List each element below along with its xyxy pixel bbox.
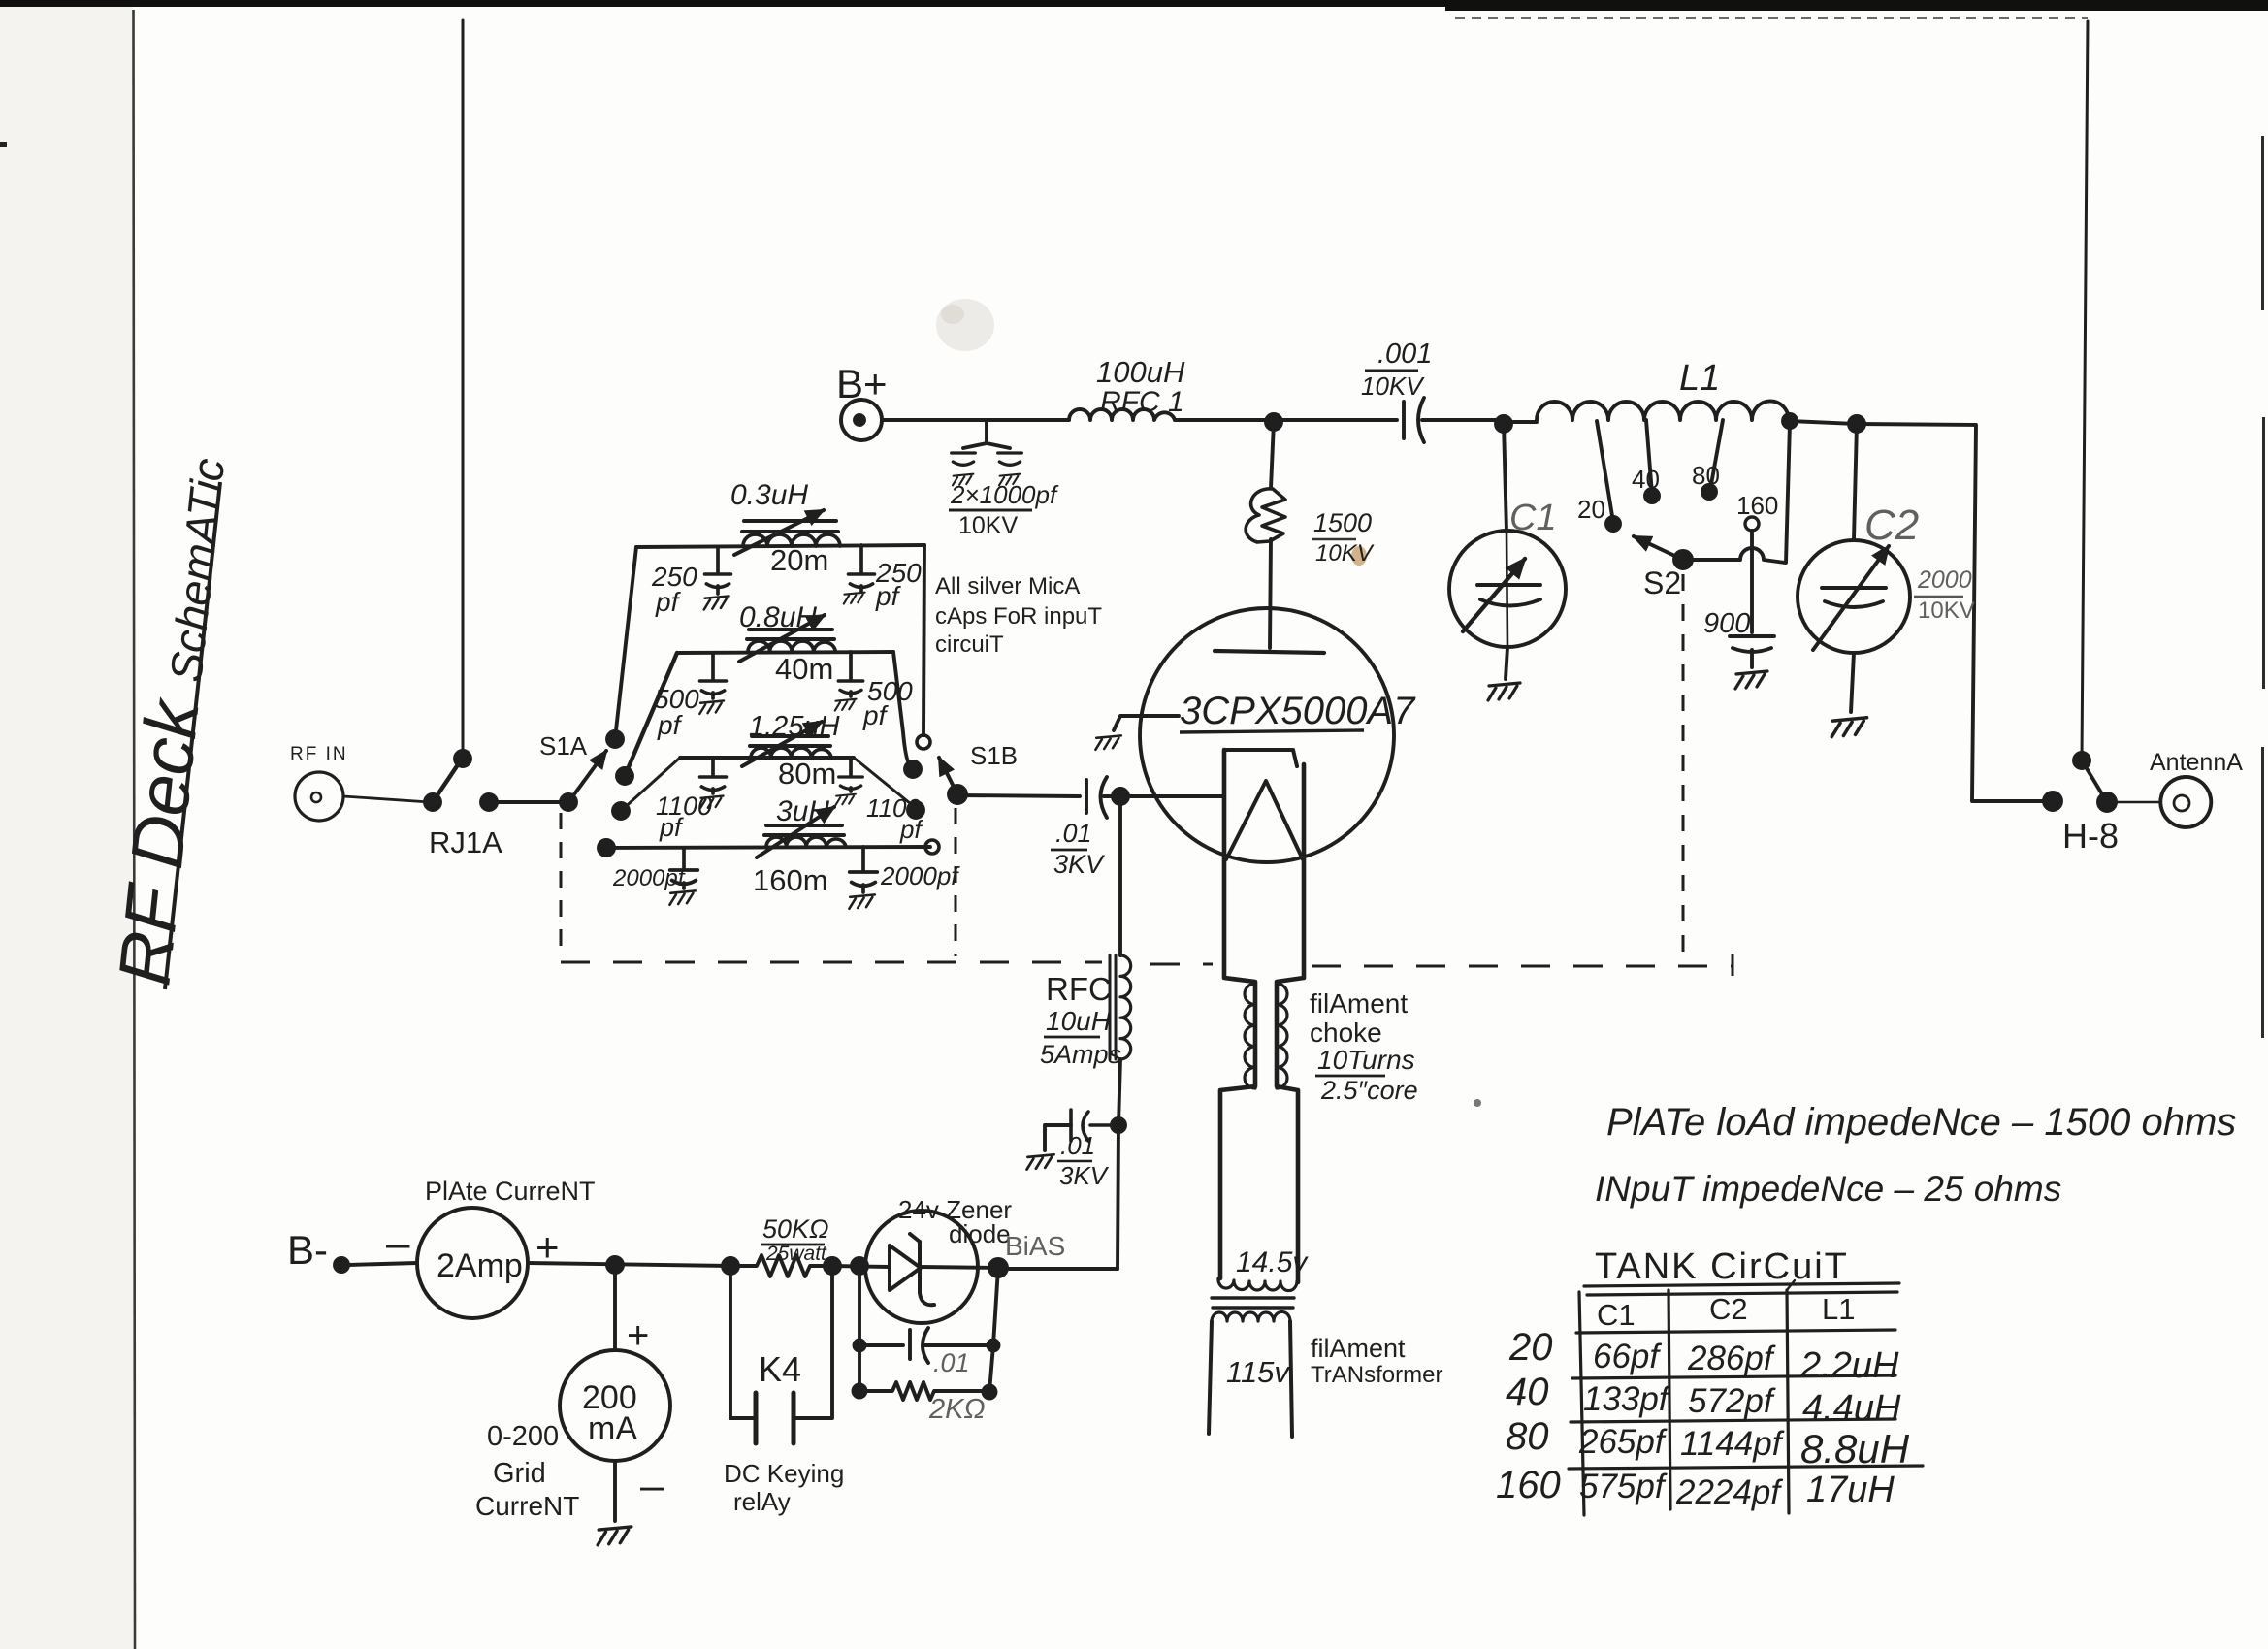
svg-text:160: 160: [1496, 1464, 1561, 1506]
svg-text:160m: 160m: [753, 863, 828, 897]
20m band tuned circuit: [704, 510, 875, 609]
SEC3: [335, 1208, 1007, 1545]
node RJ1A contact: [425, 794, 440, 810]
label .01 3KV bypass: [1057, 1131, 1110, 1190]
filament transformer secondary winding 14.5v: [1218, 1278, 1297, 1291]
svg-text:K4: K4: [759, 1349, 801, 1389]
svg-text:.01: .01: [1060, 1131, 1095, 1160]
ground: [1027, 1154, 1054, 1169]
svg-text:C2: C2: [1709, 1292, 1748, 1326]
inductor 0.3uH 20m: [743, 534, 840, 546]
wire input node down to RFC: [1118, 796, 1122, 955]
wire RC left branch down: [858, 1266, 861, 1391]
node cap row right: [988, 1341, 999, 1351]
zener diode circle: [865, 1211, 978, 1323]
wire 80m right slant: [854, 758, 916, 808]
node tap80: [1702, 485, 1716, 499]
meter grid current 200mA: [560, 1350, 670, 1461]
node bypass cap junction: [1112, 1118, 1125, 1132]
table column line 1: [1579, 1292, 1584, 1515]
svg-text:.01: .01: [933, 1348, 970, 1377]
wire bias line left to BIAS node: [998, 1267, 1118, 1271]
node contact 80m left: [613, 803, 629, 819]
choke RFC winding: [1120, 955, 1131, 1059]
RF IN center pin: [311, 792, 321, 802]
tan spot near tube: [1351, 546, 1367, 566]
svg-text:choke: choke: [1310, 1018, 1382, 1048]
node contact 20m left: [607, 731, 623, 747]
table rule under header: [1576, 1330, 1895, 1333]
svg-text:cAps FoR inpuT: cAps FoR inpuT: [935, 603, 1102, 630]
parasitic suppressor squiggle: [1246, 489, 1285, 542]
svg-text:20m: 20m: [770, 543, 828, 577]
node input junction: [1113, 789, 1128, 804]
wire top-right vertical from dashed line to H-8: [2082, 21, 2088, 759]
svg-text:.01: .01: [1055, 819, 1092, 848]
wire S1B to series cap: [957, 795, 1080, 796]
node RC branch: [852, 1258, 867, 1274]
dashed enclosure input circuit: [561, 18, 2088, 976]
table top double rule: [1584, 1283, 1899, 1295]
svg-text:AntennA: AntennA: [2150, 749, 2243, 776]
svg-text:RFC 1: RFC 1: [1100, 386, 1184, 418]
svg-text:1144pf: 1144pf: [1680, 1425, 1785, 1463]
svg-text:pf: pf: [875, 581, 902, 611]
capacitor .01 parallel: [859, 1328, 993, 1363]
node output contact: [2044, 792, 2061, 810]
node contact 40m right: [905, 761, 921, 777]
svg-text:80m: 80m: [778, 757, 836, 791]
table rule under row 80: [1569, 1466, 1923, 1469]
zener diode symbol: [890, 1234, 934, 1305]
svg-text:80: 80: [1506, 1415, 1549, 1458]
svg-text:2000: 2000: [1917, 566, 1972, 594]
node cap row left: [855, 1341, 865, 1351]
svg-text:RFC: RFC: [1046, 971, 1112, 1007]
160m band tuned circuit: [669, 807, 877, 909]
svg-text:25watt: 25watt: [765, 1243, 827, 1265]
wire zener to BIAS node: [920, 1267, 998, 1268]
svg-text:–: –: [640, 1462, 664, 1509]
capacitor 2000pf right: [861, 847, 865, 870]
svg-text:0.3uH: 0.3uH: [730, 479, 808, 511]
node tap160 ring: [1745, 517, 1759, 531]
wire bypass cap to ground: [1045, 1125, 1071, 1150]
svg-text:2.2uH: 2.2uH: [1799, 1345, 1899, 1386]
wire BIAS down through RC right: [989, 1268, 998, 1392]
wire S2 wiper to L1 end with hop over 160 line: [1683, 548, 1785, 563]
node H-8 pivot: [2098, 793, 2116, 811]
node contact 160m right ring: [925, 840, 939, 854]
wire down to grid meter: [613, 1265, 617, 1350]
svg-text:filAment: filAment: [1311, 1334, 1406, 1363]
dashed bottom line: [561, 961, 1102, 964]
wire 160 tap down to 900pf: [1750, 531, 1754, 632]
resistor 2K zigzag: [859, 1382, 989, 1400]
inductor RFC1 100uH: [1069, 409, 1175, 420]
svg-text:10KV: 10KV: [1918, 598, 1975, 624]
dashed box right: [955, 808, 957, 956]
capacitor 500pf right: [849, 652, 853, 679]
B+ terminal: [841, 400, 882, 440]
primary lead right: [1290, 1321, 1292, 1437]
svg-text:2000pf: 2000pf: [612, 865, 687, 891]
svg-text:3KV: 3KV: [1053, 850, 1106, 879]
svg-text:RF IN: RF IN: [290, 744, 348, 764]
svg-text:133pf: 133pf: [1583, 1380, 1671, 1418]
labels: top row: [836, 339, 2243, 856]
dashed end tick: [1732, 954, 1734, 976]
table rule under row 40: [1571, 1419, 1895, 1422]
tube label: [1180, 690, 1416, 732]
ground: [598, 1527, 632, 1545]
SEC2: [295, 545, 1224, 856]
table column line 2: [1669, 1290, 1670, 1509]
svg-text:66pf: 66pf: [1593, 1338, 1662, 1375]
wire node to L1: [1504, 420, 1537, 424]
relay H-8 arm: [2082, 760, 2107, 802]
C1 arrow: [1463, 559, 1525, 631]
wire meter to junctions: [528, 1263, 730, 1266]
wire C2 node to output corner: [1857, 424, 2045, 801]
dotted top link line: [1455, 17, 2088, 19]
svg-text:S1A: S1A: [539, 731, 588, 760]
svg-text:RJ1A: RJ1A: [429, 825, 502, 859]
tap 40 on L1: [1646, 420, 1652, 494]
inductor 0.8uH 40m: [748, 641, 835, 652]
svg-text:2224pf: 2224pf: [1675, 1473, 1783, 1511]
wire RFC down to bias corner: [1118, 1059, 1120, 1269]
anode bar: [1215, 651, 1324, 653]
node junction at anode feed: [1266, 414, 1281, 430]
svg-text:B+: B+: [836, 361, 888, 406]
svg-text:4.4uH: 4.4uH: [1802, 1388, 1901, 1429]
wire cap to tube cathode: [1104, 794, 1224, 798]
labels bottom-left: [287, 1177, 1065, 1521]
svg-text:80: 80: [1692, 461, 1720, 490]
antenna center pin: [2174, 795, 2189, 811]
svg-text:pf: pf: [659, 813, 684, 842]
wire 20m section top: [636, 545, 924, 547]
svg-text:.001: .001: [1377, 339, 1432, 370]
svg-text:1500: 1500: [1313, 508, 1372, 537]
svg-text:17uH: 17uH: [1806, 1470, 1895, 1510]
choke RFC core bars: [1110, 955, 1116, 1059]
wire C2 branch down: [1854, 424, 1857, 539]
cathode stem right: [1277, 764, 1304, 1282]
svg-text:160: 160: [1736, 491, 1778, 520]
capacitor 2x1000pf right unit: [998, 453, 1022, 465]
svg-text:C1: C1: [1597, 1298, 1636, 1332]
svg-text:relAy: relAy: [733, 1487, 791, 1516]
capacitor 1100pf right: [849, 758, 853, 775]
ground: [1735, 671, 1767, 689]
connector Antenna jack: [2160, 777, 2211, 827]
svg-text:3CPX5000A7: 3CPX5000A7: [1180, 690, 1416, 732]
tap 80 on L1: [1710, 420, 1723, 490]
svg-text:2.5″core: 2.5″core: [1320, 1076, 1418, 1105]
wire into zener: [832, 1266, 890, 1267]
wire C2 to ground: [1851, 653, 1854, 712]
node contact 20m right ring: [917, 735, 930, 749]
svg-text:10uH: 10uH: [1046, 1006, 1112, 1036]
node contact 40m left: [617, 768, 632, 784]
ground: [1095, 735, 1120, 749]
relay K4 coil wires: [730, 1266, 832, 1418]
svg-text:+: +: [535, 1224, 560, 1270]
notes and table bottom right: [1595, 1101, 2236, 1287]
node contact 80m right: [908, 802, 923, 818]
svg-text:40m: 40m: [775, 652, 833, 686]
wire C1 to ground: [1506, 647, 1507, 679]
scanner margin strip left of page edge: [0, 0, 133, 1649]
svg-text:20: 20: [1577, 495, 1605, 524]
capacitor 900pf: [1730, 636, 1774, 652]
node L1 right end: [1783, 414, 1797, 428]
svg-text:PlAte CurreNT: PlAte CurreNT: [425, 1177, 596, 1206]
wire cap to tank node: [1422, 418, 1499, 422]
node S1A pivot: [561, 794, 576, 810]
capacitor 500pf left: [711, 653, 715, 679]
wire 900pf to ground: [1750, 650, 1754, 667]
node BIAS: [989, 1259, 1007, 1277]
wire 40m right slant: [893, 652, 913, 769]
svg-text:circuiT: circuiT: [935, 631, 1004, 658]
svg-text:0.8uH: 0.8uH: [739, 601, 817, 633]
svg-text:filAment: filAment: [1310, 988, 1408, 1018]
filament choke right winding: [1277, 984, 1287, 1088]
right edge scan marks: [2261, 136, 2264, 310]
svg-text:3KV: 3KV: [1059, 1161, 1110, 1190]
80m band tuned circuit: [700, 722, 863, 809]
svg-text:3uH: 3uH: [776, 795, 829, 827]
svg-text:900: 900: [1703, 608, 1750, 639]
cathode bracket: [1224, 750, 1297, 766]
wires: main schematic strokes: [463, 20, 2211, 827]
capacitor 250pf right: [859, 545, 863, 572]
svg-text:pf: pf: [899, 815, 923, 844]
wire 20m right slant: [923, 545, 924, 735]
svg-text:572pf: 572pf: [1688, 1382, 1776, 1420]
wire suppressor to anode: [1270, 539, 1271, 648]
svg-text:10Turns: 10Turns: [1317, 1045, 1415, 1075]
connector RF IN jack: [295, 772, 343, 821]
filament triangle: [1226, 781, 1303, 859]
cathode stem left: [1220, 750, 1255, 1278]
svg-text:2000pf: 2000pf: [880, 861, 960, 890]
svg-text:0-200: 0-200: [487, 1421, 559, 1452]
svg-text:286pf: 286pf: [1687, 1340, 1776, 1377]
svg-text:pf: pf: [655, 587, 682, 617]
node K4 left: [723, 1258, 738, 1274]
filament choke left winding: [1245, 984, 1255, 1088]
small dot left of table: [1474, 1099, 1481, 1107]
wire RF IN to RJ1A: [343, 796, 430, 802]
labels tank area: [1312, 461, 1975, 639]
wire 80m section top: [680, 756, 854, 760]
table column line 3: [1787, 1290, 1789, 1513]
labels input circuit: [612, 479, 960, 891]
meter plate current 2Amp: [417, 1208, 528, 1318]
capacitor 2x1000pf left unit: [952, 453, 976, 465]
capacitor 250pf left: [716, 547, 720, 572]
capacitor 2000pf left: [682, 848, 686, 868]
ground: [1831, 718, 1866, 737]
node C2 branch: [1849, 416, 1864, 432]
node contact 160m left: [599, 840, 614, 856]
wire L1 to C2 node: [1790, 421, 1857, 424]
svg-text:–: –: [386, 1219, 410, 1267]
svg-text:INpuT impedeNce – 25 ohms: INpuT impedeNce – 25 ohms: [1595, 1169, 2061, 1209]
node RJ1A second contact: [481, 794, 497, 810]
svg-text:10KV: 10KV: [1361, 372, 1425, 401]
relay RJ1A arm: [433, 755, 465, 802]
switch S1B arm: [939, 758, 957, 794]
node S1B pivot: [949, 786, 966, 803]
transformer core: [1212, 1298, 1294, 1308]
tube 3CPX5000A7 envelope: [1140, 608, 1394, 862]
svg-text:115v: 115v: [1226, 1355, 1290, 1389]
svg-text:S1B: S1B: [970, 741, 1018, 770]
capacitor .001 10KV blocking: [1404, 398, 1424, 442]
wire B+ to RFC1: [882, 418, 1069, 422]
variable capacitor C2: [1798, 540, 1910, 653]
svg-text:B-: B-: [287, 1227, 328, 1273]
svg-text:C1: C1: [1509, 498, 1557, 538]
svg-text:40: 40: [1506, 1371, 1549, 1413]
inductor L1: [1537, 401, 1789, 420]
smudge stain top middle: [936, 299, 994, 351]
wire 40m contact to section: [625, 653, 677, 776]
wire 40m section top: [677, 652, 893, 653]
switch S2 arm: [1634, 536, 1683, 560]
svg-text:2KΩ: 2KΩ: [928, 1394, 986, 1425]
svg-text:pf: pf: [657, 710, 684, 740]
dashed box left: [560, 813, 563, 956]
svg-text:C2: C2: [1864, 501, 1919, 549]
node H-8 arm top: [2074, 753, 2090, 768]
wire 80m contact to section: [621, 758, 680, 811]
svg-text:Grid: Grid: [493, 1458, 546, 1489]
dashed S2 gang line: [1682, 574, 1685, 964]
svg-text:14.5v: 14.5v: [1236, 1246, 1309, 1278]
svg-text:DC Keying: DC Keying: [724, 1459, 844, 1488]
ground: [1488, 683, 1520, 700]
tick above column 3: [1787, 1280, 1795, 1290]
labels chokes and transformer: [1040, 971, 1442, 1389]
node B- terminal: [335, 1258, 348, 1272]
node K4 right / 50K right: [825, 1258, 840, 1274]
node res row left: [854, 1385, 866, 1398]
tap 20 on L1: [1597, 421, 1613, 522]
page edge vertical line: [134, 10, 136, 1649]
wire anode feed down from junction: [1271, 422, 1274, 488]
filament transformer primary winding 115v: [1212, 1311, 1290, 1321]
svg-text:1.25uH: 1.25uH: [749, 711, 840, 742]
svg-text:50KΩ: 50KΩ: [762, 1214, 829, 1244]
wire B- to plate meter: [348, 1263, 417, 1265]
ground: [953, 474, 973, 486]
primary lead left: [1209, 1321, 1212, 1434]
wire pivot to antenna: [2116, 801, 2159, 804]
node RJ1A arm top: [455, 751, 470, 766]
svg-text:All silver MicA: All silver MicA: [935, 573, 1080, 599]
resistor 50K zigzag: [730, 1255, 832, 1277]
wire RJ1A vertical from top: [462, 20, 465, 759]
svg-text:CurreNT: CurreNT: [475, 1491, 579, 1521]
C2 arrow: [1813, 546, 1889, 650]
scan top black bar: [0, 0, 2268, 7]
inductor 3uH 160m: [766, 837, 846, 847]
svg-text:2×1000pf: 2×1000pf: [950, 480, 1059, 509]
wire L1 end down to wiper: [1786, 423, 1790, 563]
relay K4 contact bars: [756, 1393, 794, 1443]
node tap20: [1606, 517, 1620, 531]
table rule under row 20: [1572, 1375, 1895, 1378]
svg-text:PlATe loAd impedeNce – 1500 oh: PlATe loAd impedeNce – 1500 ohms: [1606, 1101, 2236, 1144]
node grid meter branch: [607, 1257, 623, 1273]
svg-text:2Amp: 2Amp: [437, 1247, 523, 1284]
svg-text:S2: S2: [1643, 566, 1681, 600]
svg-text:TANK CirCuiT: TANK CirCuiT: [1595, 1246, 1849, 1287]
capacitor 1100pf left: [711, 758, 715, 775]
svg-text:L1: L1: [1822, 1292, 1855, 1326]
ground: [999, 474, 1020, 486]
svg-text:mA: mA: [588, 1410, 637, 1447]
svg-text:H-8: H-8: [2062, 816, 2119, 856]
left edge small mark: [0, 142, 7, 147]
wire RJ1A to S1A: [489, 800, 568, 804]
capacitor .01 3KV bypass stub: [1071, 1110, 1118, 1141]
svg-text:L1: L1: [1679, 358, 1720, 399]
40m band tuned circuit: [699, 615, 863, 714]
svg-text:diode: diode: [949, 1219, 1011, 1248]
B+ center dot: [855, 415, 864, 425]
svg-text:10KV: 10KV: [958, 512, 1018, 539]
node res row right: [984, 1386, 996, 1399]
variable capacitor C1: [1449, 531, 1566, 647]
svg-text:40: 40: [1632, 465, 1660, 494]
svg-text:10KV: 10KV: [1315, 540, 1375, 566]
switch S1A arm: [568, 751, 606, 802]
svg-text:BiAS: BiAS: [1005, 1231, 1065, 1261]
svg-text:pf: pf: [862, 700, 890, 730]
wire grid meter to ground: [613, 1461, 617, 1521]
svg-text:TrANsformer: TrANsformer: [1311, 1362, 1442, 1388]
wire 160m section line: [606, 847, 930, 848]
svg-text:+: +: [627, 1314, 649, 1357]
wire 20m contact to section: [615, 547, 636, 739]
grid lead and ground: [1114, 716, 1179, 730]
svg-text:265pf: 265pf: [1578, 1423, 1668, 1461]
node tap40: [1645, 489, 1659, 502]
svg-text:575pf: 575pf: [1579, 1468, 1668, 1505]
svg-text:100uH: 100uH: [1096, 355, 1185, 389]
wire RFC1 to blocking cap: [1175, 418, 1397, 422]
capacitor .01 3KV series: [1086, 777, 1107, 818]
wire 2x1000pf branch stub: [963, 420, 1010, 448]
node S2 pivot: [1674, 551, 1692, 568]
svg-text:20: 20: [1508, 1326, 1553, 1369]
svg-text:8.8uH: 8.8uH: [1800, 1426, 1910, 1471]
inductor 1.25uH 80m: [751, 748, 831, 758]
wire C1 branch down: [1504, 424, 1507, 532]
node tank input junction: [1496, 416, 1511, 432]
title: RF Deck Schematic (rotated): [103, 453, 241, 989]
